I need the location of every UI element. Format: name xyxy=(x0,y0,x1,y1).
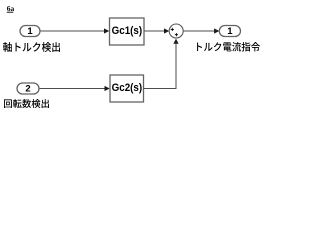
svg-text:1: 1 xyxy=(27,26,33,37)
svg-text:Gc1(s): Gc1(s) xyxy=(112,25,143,37)
svg-text:Gc2(s): Gc2(s) xyxy=(112,82,143,94)
svg-text:2: 2 xyxy=(25,83,30,94)
svg-text:1: 1 xyxy=(227,26,233,37)
